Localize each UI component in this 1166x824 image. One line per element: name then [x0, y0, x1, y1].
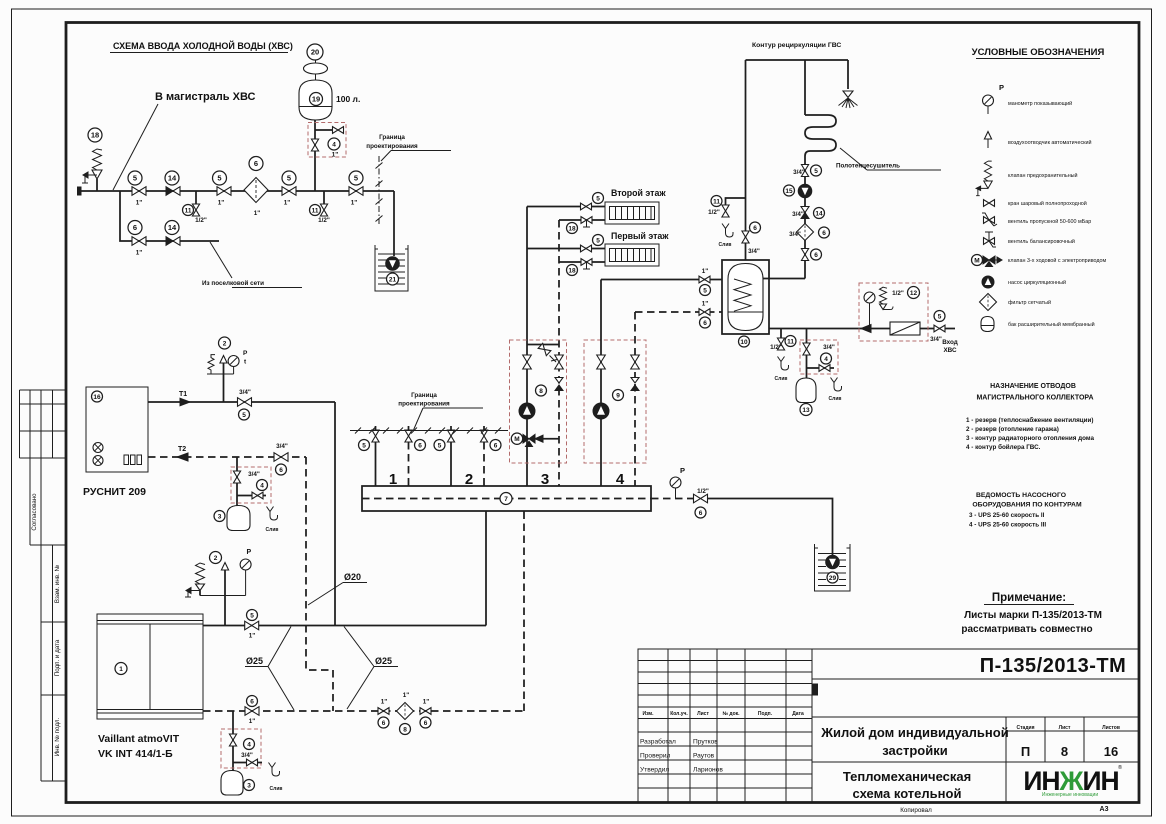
mini safety valve on feed: [880, 287, 894, 309]
valve (5) 3/4" feed inlet: [930, 311, 945, 344]
label: Граница проектирования (top): [366, 134, 451, 161]
drain funnel Слив lower: [269, 763, 283, 793]
red box (12) gauge+safety: [859, 283, 928, 341]
svg-text:6: 6: [382, 720, 386, 727]
svg-text:Примечание:: Примечание:: [992, 592, 1066, 604]
valve (5) 1" supply: [699, 268, 711, 296]
pipe: recirculation return chain: [804, 165, 806, 279]
legend item: клапан 3-х ходовой с электроприводом: [972, 255, 1107, 267]
label Ø20 with leader: [308, 572, 367, 605]
svg-text:Лист: Лист: [1059, 725, 1071, 731]
svg-text:5: 5: [133, 174, 137, 183]
svg-text:манометр показывающий: манометр показывающий: [1008, 100, 1072, 107]
svg-text:Граница: Граница: [411, 392, 437, 399]
svg-text:1/2": 1/2": [318, 217, 330, 224]
svg-text:бак расширительный мембранный: бак расширительный мембранный: [1008, 321, 1095, 328]
drain branch with valve: [237, 492, 266, 499]
design boundary line above stubs: [350, 428, 508, 434]
svg-text:13: 13: [802, 407, 810, 414]
svg-text:5: 5: [242, 412, 246, 419]
svg-text:1": 1": [254, 210, 261, 217]
air vent (2) above Vaillant: [210, 552, 229, 626]
legend item: насос циркуляционный: [982, 276, 1066, 288]
air vent (2) on T1: [219, 337, 231, 402]
svg-text:Граница: Граница: [379, 134, 405, 141]
svg-text:3/4": 3/4": [748, 248, 760, 255]
svg-text:3/4": 3/4": [823, 344, 835, 351]
svg-text:Подп.: Подп.: [758, 711, 773, 717]
svg-text:20: 20: [311, 48, 319, 57]
flow arrow T2: [177, 453, 188, 461]
svg-text:VK INT 414/1-Б: VK INT 414/1-Б: [98, 748, 173, 760]
svg-text:3 - UPS 25-60 скорость II: 3 - UPS 25-60 скорость II: [969, 512, 1045, 519]
valve (5) 1" after filter: [282, 171, 296, 207]
svg-text:Проверил: Проверил: [640, 753, 671, 760]
legend item: клапан предохранительный: [976, 161, 1078, 196]
valve (5) 3/4" recirc: [793, 165, 821, 177]
legend item: вентиль балансировочный: [984, 232, 1075, 247]
svg-text:4 - UPS 25-60 скорость III: 4 - UPS 25-60 скорость III: [969, 522, 1046, 529]
svg-text:5: 5: [938, 313, 942, 320]
P gauge on feed: [864, 292, 875, 329]
filter group on return: left valve (6) 1": [378, 699, 389, 729]
svg-text:В магистраль ХВС: В магистраль ХВС: [155, 91, 255, 103]
svg-text:2: 2: [465, 471, 473, 488]
pipe T2 return (dashed): [148, 456, 306, 458]
svg-text:ОБОРУДОВАНИЯ ПО КОНТУРАМ: ОБОРУДОВАНИЯ ПО КОНТУРАМ: [972, 502, 1082, 509]
svg-text:Ларионов: Ларионов: [693, 767, 723, 774]
svg-text:Изм.: Изм.: [642, 711, 654, 717]
pipe: supply to DHW tank: [601, 279, 722, 281]
drain valve (11) 1/2" left: [183, 191, 207, 224]
svg-text:вентиль пропускной 50-600 мБар: вентиль пропускной 50-600 мБар: [1008, 218, 1091, 225]
expansion tank (3) upper: [214, 506, 250, 531]
check valve on return riser 3: [555, 378, 563, 391]
svg-text:6: 6: [699, 510, 703, 517]
tag circle 8: [536, 385, 547, 396]
svg-text:№ док.: № док.: [722, 711, 740, 717]
svg-text:11: 11: [713, 198, 720, 205]
pipe T1 supply: [148, 401, 335, 403]
svg-text:P: P: [999, 83, 1004, 92]
pipe: boiler supply riser 4: [600, 280, 602, 487]
svg-text:3/4": 3/4": [239, 389, 251, 396]
label Ø25 left with leaders: [245, 627, 294, 711]
bypass with balancing valve: [527, 343, 559, 362]
drain (11) 1/2" on DHW outlet: [708, 196, 745, 249]
svg-text:А3: А3: [1100, 806, 1109, 813]
svg-text:Ø25: Ø25: [246, 656, 263, 666]
svg-text:3 - контур радиаторного отопле: 3 - контур радиаторного отопления дома: [966, 435, 1094, 442]
svg-text:18: 18: [568, 225, 576, 232]
pipe: radiator return riser (dashed): [558, 220, 560, 486]
tags 1/2" (12): [892, 287, 919, 299]
P gauge above Vaillant: [200, 549, 252, 596]
strainer (8) on return: [397, 692, 414, 735]
svg-text:4: 4: [824, 356, 828, 363]
legend item: манометр показывающий: [983, 83, 1073, 114]
valve on return riser 3: [555, 355, 564, 369]
3-way mixing valve with motor (M): [511, 433, 559, 447]
svg-text:Листы марки П-135/2013-ТМ: Листы марки П-135/2013-ТМ: [964, 610, 1102, 621]
legend item: воздухоотводчик автоматический: [984, 132, 1091, 149]
drain branch with valve lower: [233, 759, 262, 766]
red box around valve 4: [308, 123, 346, 158]
check valve (14) main: [165, 171, 180, 195]
svg-text:рассматривать совместно: рассматривать совместно: [961, 624, 1092, 635]
svg-text:Инв. № подл.: Инв. № подл.: [54, 717, 61, 756]
svg-text:Стадия: Стадия: [1016, 725, 1034, 731]
drain/expansion group under Vaillant return: [232, 711, 234, 771]
svg-text:5: 5: [596, 237, 600, 244]
svg-text:Слив: Слив: [829, 396, 842, 402]
valve (5) 3/4" on T1: [238, 389, 252, 420]
svg-text:14: 14: [815, 210, 823, 217]
valve (6) 1" return: [699, 301, 711, 329]
pipe: recirc into tank side: [763, 278, 805, 280]
svg-text:1: 1: [389, 471, 397, 488]
pipe: radiator supply riser: [526, 207, 528, 487]
pipe: boiler return riser 4 (dashed): [634, 312, 636, 486]
red box around valve 4 lower: [221, 729, 261, 768]
svg-text:3/4": 3/4": [276, 443, 288, 450]
svg-text:Контур рециркуляции ГВС: Контур рециркуляции ГВС: [752, 42, 841, 49]
svg-text:3: 3: [247, 782, 251, 789]
svg-text:Второй этаж: Второй этаж: [611, 188, 666, 198]
svg-text:19: 19: [312, 95, 320, 104]
pipe: Vaillant supply: [203, 625, 486, 627]
valve on branch: [233, 471, 240, 483]
pipe: down to break tank: [393, 191, 395, 256]
svg-text:6: 6: [753, 225, 757, 232]
pipe: cold water main: [80, 190, 394, 192]
pipe: riser to expansion tank: [314, 120, 316, 191]
tag (4) 3/4" lower: [241, 739, 254, 760]
svg-text:5: 5: [362, 442, 366, 449]
svg-text:5: 5: [703, 287, 707, 294]
right valve (6) 1": [420, 699, 431, 729]
svg-text:2: 2: [223, 340, 227, 347]
safety valve (18): [82, 149, 102, 191]
svg-text:1/2": 1/2": [195, 217, 207, 224]
svg-text:14: 14: [168, 223, 177, 232]
radiator 1st floor: [605, 244, 659, 266]
supply valve (5) 1st floor: [527, 235, 605, 252]
pipe: T2 route down to Vaillant return: [306, 457, 333, 711]
svg-text:Слив: Слив: [266, 527, 279, 533]
valve (6) 3/4" recirc lower: [801, 249, 821, 261]
label: Из поселковой сети: [202, 242, 302, 288]
label: Полотенцесушитель: [836, 148, 941, 170]
svg-text:3/4": 3/4": [789, 231, 801, 238]
svg-text:3: 3: [541, 471, 549, 488]
pipe: T1 riser down to Vaillant supply: [334, 402, 336, 626]
svg-text:6: 6: [703, 320, 707, 327]
P gauge on collector outlet: [670, 466, 685, 499]
svg-text:M: M: [974, 258, 979, 265]
drain funnel Слив: [266, 507, 279, 534]
recirculation pump (15): [784, 184, 812, 198]
svg-text:5: 5: [814, 168, 818, 175]
air vent (20) on tank: [304, 44, 328, 80]
svg-text:Прутков: Прутков: [693, 739, 718, 746]
valve on supply riser 3: [523, 355, 532, 369]
svg-text:Копировал: Копировал: [900, 807, 932, 814]
INZHIN logo: [1023, 764, 1122, 798]
svg-text:9: 9: [616, 392, 620, 399]
svg-text:6: 6: [424, 720, 428, 727]
svg-text:воздухоотводчик автоматический: воздухоотводчик автоматический: [1008, 139, 1092, 146]
flow arrow T1: [180, 398, 190, 406]
svg-text:2 - резерв (отопление гаража): 2 - резерв (отопление гаража): [966, 426, 1059, 433]
pipe: return riser to collector (dashed): [523, 511, 525, 711]
svg-text:Полотенцесушитель: Полотенцесушитель: [836, 163, 900, 170]
svg-text:Инженерные инновации: Инженерные инновации: [1042, 792, 1098, 798]
tag circle 9: [613, 390, 624, 401]
legend item: кран шаровый полнопроходной: [984, 200, 1087, 207]
svg-text:Ø25: Ø25: [375, 656, 392, 666]
red box pump group 4: [584, 340, 646, 463]
svg-text:2: 2: [214, 555, 218, 562]
svg-text:15: 15: [785, 188, 793, 195]
tag 3/4" (4): [248, 471, 267, 491]
valve (6) 3/4" on T2: [274, 443, 288, 475]
towel dryer coil: [805, 115, 836, 165]
legend item: фильтр сетчатый: [980, 294, 1051, 311]
valve (5) 1" main: [128, 171, 146, 207]
svg-text:Ø20: Ø20: [344, 572, 361, 582]
strainer (6) 3/4" recirc: [789, 224, 829, 241]
valve (6) 1" on return: [245, 696, 259, 726]
pipe: collector drain outlet: [651, 498, 694, 500]
branch to expansion tank 13: [806, 329, 808, 379]
expansion tank (3) lower: [221, 771, 255, 796]
svg-text:Взам. инв. №: Взам. инв. №: [54, 564, 61, 603]
svg-text:клапан 3-х ходовой с электропр: клапан 3-х ходовой с электроприводом: [1008, 257, 1107, 264]
svg-text:УСЛОВНЫЕ ОБОЗНАЧЕНИЯ: УСЛОВНЫЕ ОБОЗНАЧЕНИЯ: [972, 47, 1105, 58]
valve on tank riser: [311, 139, 318, 151]
svg-text:1/2": 1/2": [697, 488, 709, 495]
svg-text:Лист: Лист: [697, 711, 709, 717]
red box around valve 4: [231, 467, 271, 503]
svg-text:29: 29: [829, 575, 837, 582]
svg-text:5: 5: [217, 174, 221, 183]
legend item: вентиль пропускной 50-600 мБар: [982, 213, 1091, 226]
svg-text:1": 1": [332, 152, 339, 159]
radiator 2nd floor: [605, 202, 659, 224]
drain valve (6) 1/2" on outlet: [694, 488, 709, 518]
expansion tank (13): [796, 378, 816, 416]
legend item: бак расширительный мембранный: [981, 317, 1095, 332]
stub riser 1 supply: [359, 426, 380, 486]
svg-text:18: 18: [568, 267, 576, 274]
svg-text:Тепломеханическая: Тепломеханическая: [843, 769, 971, 784]
svg-text:8: 8: [403, 726, 407, 733]
svg-text:1/2": 1/2": [892, 290, 904, 297]
DHW storage boiler (10): [722, 260, 769, 347]
label: Граница проектирования (collector): [398, 392, 483, 430]
collector (7): [362, 486, 651, 511]
svg-text:Первый этаж: Первый этаж: [611, 231, 669, 241]
svg-text:кран шаровый полнопроходной: кран шаровый полнопроходной: [1008, 200, 1087, 207]
bypass valve (6) 1": [128, 221, 146, 257]
svg-text:5: 5: [250, 612, 254, 619]
break tank (21) with pump: [375, 245, 408, 291]
label: Вход ХВС: [942, 339, 958, 354]
valve (5) 1" before filter: [213, 171, 232, 207]
stub riser 1 return (dashed): [405, 426, 426, 486]
svg-text:16: 16: [1104, 744, 1118, 759]
leader line: [113, 104, 158, 190]
check arrow on feed: [861, 325, 871, 333]
svg-text:1 - резерв (теплоснабжение вен: 1 - резерв (теплоснабжение вентиляции): [966, 416, 1093, 424]
svg-text:схема котельной: схема котельной: [853, 786, 962, 801]
label: Vaillant atmoVIT VK INT 414/1-Б: [98, 733, 180, 760]
svg-text:11: 11: [185, 207, 192, 214]
pipe: bypass branch: [120, 191, 219, 241]
design boundary line (top): [376, 156, 383, 224]
svg-text:1: 1: [119, 666, 123, 673]
svg-text:Vaillant atmoVIT: Vaillant atmoVIT: [98, 733, 180, 745]
svg-text:7: 7: [504, 496, 508, 503]
svg-text:Слив: Слив: [270, 786, 283, 792]
red box around valve 4: [800, 340, 838, 374]
svg-text:П-135/2013-ТМ: П-135/2013-ТМ: [980, 655, 1127, 677]
valve (6) 3/4" on DHW outlet: [742, 222, 761, 255]
svg-text:РУСНИТ 209: РУСНИТ 209: [83, 486, 146, 498]
svg-text:Вход: Вход: [942, 339, 958, 346]
svg-text:4: 4: [260, 482, 264, 489]
svg-text:Подп. и дата: Подп. и дата: [54, 639, 61, 676]
svg-text:6: 6: [418, 442, 422, 449]
electric boiler РУСНИТ 209 (16): [86, 387, 148, 472]
tag circle 18: [88, 128, 102, 142]
svg-text:П: П: [1021, 744, 1030, 759]
supply valve (5) 2nd floor: [527, 193, 605, 210]
pipe: supply riser to collector: [485, 511, 487, 626]
svg-text:НАЗНАЧЕНИЕ ОТВОДОВ: НАЗНАЧЕНИЕ ОТВОДОВ: [990, 383, 1076, 390]
pipe: cold water feed: [769, 328, 955, 330]
expansion group on T2: branch: [236, 457, 238, 506]
svg-text:11: 11: [787, 338, 794, 345]
svg-text:Разработал: Разработал: [640, 738, 676, 746]
pipe: recirculation top: [746, 60, 849, 89]
pipe: DHW outlet riser: [745, 60, 747, 260]
return valve (18) 1st floor: [559, 259, 605, 276]
svg-text:3/4": 3/4": [930, 336, 942, 343]
svg-text:14: 14: [168, 174, 177, 183]
svg-text:1": 1": [423, 699, 430, 706]
pipe end cap: [78, 187, 82, 195]
tag 3/4" (4): [821, 344, 835, 364]
svg-text:21: 21: [389, 276, 397, 283]
svg-text:12: 12: [910, 290, 918, 297]
svg-text:P: P: [247, 549, 252, 556]
red box pump group 3: [510, 340, 567, 463]
svg-text:6: 6: [814, 252, 818, 259]
drain (11) 1/2" on feed: [770, 329, 796, 383]
svg-text:Жилой дом индивидуальной: Жилой дом индивидуальной: [820, 725, 1008, 740]
svg-text:3: 3: [218, 513, 222, 520]
svg-text:1": 1": [351, 200, 358, 207]
svg-text:6: 6: [822, 230, 826, 237]
mini safety valve on T1: [207, 355, 215, 374]
svg-text:4: 4: [616, 471, 625, 488]
svg-text:Из поселковой сети: Из поселковой сети: [202, 279, 264, 287]
svg-text:6: 6: [279, 467, 283, 474]
left stamp grid: [20, 390, 67, 781]
gas boiler Vaillant (1): [97, 614, 203, 719]
svg-text:Кол.уч.: Кол.уч.: [670, 711, 688, 717]
drain valve (11) 1/2" right: [310, 191, 330, 224]
svg-text:клапан предохранительный: клапан предохранительный: [1008, 172, 1078, 179]
valve on branch lower: [229, 734, 236, 746]
svg-text:P: P: [243, 350, 248, 357]
svg-text:T1: T1: [179, 391, 187, 398]
svg-text:проектирования: проектирования: [366, 143, 418, 150]
drain branch with valve: [807, 365, 842, 402]
svg-text:Раутов: Раутов: [693, 753, 715, 760]
svg-text:Дата: Дата: [792, 711, 804, 717]
svg-text:®: ®: [1118, 764, 1122, 771]
pipe: to drain tank: [707, 499, 833, 557]
svg-text:1": 1": [403, 692, 410, 699]
strainer filter (6) main: [244, 157, 268, 218]
svg-text:5: 5: [596, 195, 600, 202]
svg-text:1": 1": [136, 200, 143, 207]
svg-text:5: 5: [354, 174, 358, 183]
svg-text:Согласовано: Согласовано: [31, 493, 38, 531]
svg-text:1": 1": [702, 301, 709, 308]
pipe: return from DHW tank (dashed): [635, 311, 722, 313]
svg-text:1": 1": [702, 268, 709, 275]
tee with valve (4) 1": [315, 127, 344, 159]
svg-text:M: M: [514, 436, 519, 443]
svg-text:100 л.: 100 л.: [336, 94, 360, 104]
valve on branch: [803, 343, 810, 355]
svg-text:1": 1": [136, 250, 143, 257]
svg-text:застройки: застройки: [882, 743, 948, 758]
svg-text:МАГИСТРАЛЬНОГО КОЛЛЕКТОРА: МАГИСТРАЛЬНОГО КОЛЛЕКТОРА: [976, 395, 1093, 402]
svg-text:5: 5: [287, 174, 291, 183]
svg-text:проектирования: проектирования: [398, 401, 450, 408]
svg-text:1": 1": [249, 633, 256, 640]
valve (5) 1" on supply: [245, 610, 259, 640]
svg-text:6: 6: [133, 223, 137, 232]
svg-text:4: 4: [332, 141, 336, 148]
drain tank (29) with pump: [815, 544, 851, 591]
svg-text:Утвердил: Утвердил: [640, 767, 669, 774]
pipe: branch to towel dryer: [804, 60, 806, 115]
svg-text:P: P: [680, 466, 685, 475]
P/t gauge on T1: [211, 350, 248, 374]
svg-text:6: 6: [250, 698, 254, 705]
valve (5) 1" at boundary: [349, 171, 363, 207]
svg-text:вентиль балансировочный: вентиль балансировочный: [1008, 238, 1075, 245]
svg-text:1": 1": [381, 699, 388, 706]
label Ø25 right with leaders: [344, 627, 398, 710]
svg-text:1": 1": [284, 200, 291, 207]
svg-text:3/4": 3/4": [793, 169, 805, 176]
circulation pump riser 3: [519, 403, 535, 419]
svg-text:1/2": 1/2": [708, 209, 720, 216]
svg-text:3/4": 3/4": [241, 752, 253, 759]
svg-text:Листов: Листов: [1102, 725, 1120, 731]
svg-text:8: 8: [539, 388, 543, 395]
svg-text:6: 6: [254, 159, 258, 168]
inline filter on feed: [890, 322, 920, 335]
svg-text:ВЕДОМОСТЬ НАСОСНОГО: ВЕДОМОСТЬ НАСОСНОГО: [976, 492, 1066, 499]
